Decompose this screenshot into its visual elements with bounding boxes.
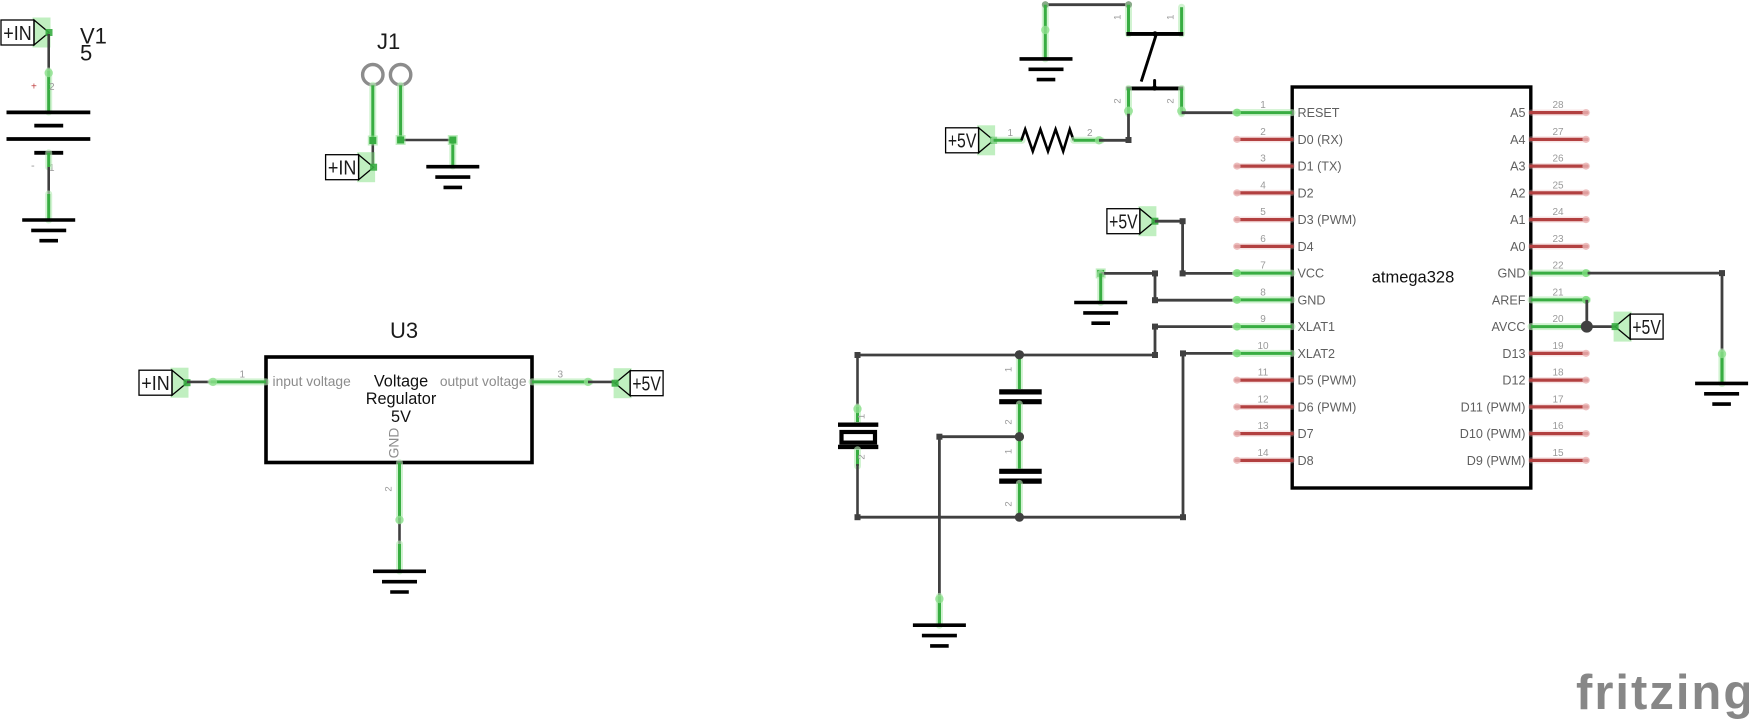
R1 pin2 wire (green) <box>1074 137 1102 144</box>
svg-text:GND: GND <box>1498 267 1526 281</box>
junction dot between C1 and C2 <box>1015 432 1024 441</box>
svg-text:J1: J1 <box>377 29 400 54</box>
ground symbol below crystal circuit <box>913 625 966 646</box>
svg-text:21: 21 <box>1552 287 1564 298</box>
wire gnd branch to GND pin <box>1155 299 1236 302</box>
green glow on ground wire <box>1041 26 1049 34</box>
switch contact dot bottom <box>1152 85 1157 90</box>
pin 6 stub of atmega328 (D4) <box>1233 243 1292 250</box>
svg-text:atmega328: atmega328 <box>1372 269 1455 287</box>
pin 18 stub of atmega328 (D12) <box>1531 377 1590 384</box>
junction dot mid node (redraw on top) <box>1015 432 1024 441</box>
bendpoint at R1/switch node <box>1126 137 1132 143</box>
pin 16 stub of atmega328 (D10 (PWM)) <box>1531 430 1590 437</box>
svg-text:XLAT1: XLAT1 <box>1298 320 1336 334</box>
svg-text:4: 4 <box>1260 180 1266 191</box>
svg-text:1: 1 <box>1260 100 1266 111</box>
green endpoint at V1 pin 2 <box>45 69 53 77</box>
svg-text:output voltage: output voltage <box>440 374 527 389</box>
svg-text:AREF: AREF <box>1492 293 1526 307</box>
wire down to ground (green) <box>1042 5 1049 59</box>
net label +5V at U3 output <box>612 368 664 398</box>
svg-text:20: 20 <box>1552 314 1564 325</box>
net label +IN at U3 input <box>139 368 191 398</box>
svg-text:A2: A2 <box>1510 186 1525 200</box>
wire +IN flag to V1 pin 2 <box>47 34 50 112</box>
pin 25 stub of atmega328 (A2) <box>1531 189 1590 196</box>
svg-text:U3: U3 <box>390 318 418 343</box>
svg-text:23: 23 <box>1552 234 1564 245</box>
wire switch pin2-left down to resistor node <box>1127 114 1130 140</box>
svg-text:AVCC: AVCC <box>1491 320 1525 334</box>
pin 5 stub of atmega328 (D3 (PWM)) <box>1233 216 1292 223</box>
svg-text:8: 8 <box>1260 287 1266 298</box>
svg-text:17: 17 <box>1552 394 1564 405</box>
svg-text:+IN: +IN <box>141 372 170 395</box>
svg-text:25: 25 <box>1552 180 1564 191</box>
green glow on GND wire <box>1718 350 1726 358</box>
net label +IN at battery V1 positive <box>1 18 53 48</box>
net label +5V at resistor R1 <box>946 125 998 155</box>
pin 1 stub of atmega328 (RESET) <box>1233 109 1292 117</box>
U3 pin 3 (green) <box>532 378 590 385</box>
bendpoint dot at top-left <box>1042 1 1049 8</box>
pin 7 stub of atmega328 (VCC) <box>1233 269 1292 277</box>
svg-text:A1: A1 <box>1510 213 1525 227</box>
pin 2 stub of atmega328 (D0 (RX)) <box>1233 136 1292 143</box>
wire J1 pin1 to +IN flag <box>371 139 374 165</box>
wire AVCC node to +5V flag <box>1587 325 1615 328</box>
bendpoint XLAT1 to rail <box>1152 352 1158 358</box>
bendpoint rail left end <box>855 352 861 358</box>
svg-text:11: 11 <box>1258 368 1269 379</box>
svg-text:1: 1 <box>1004 449 1015 454</box>
svg-text:D1 (TX): D1 (TX) <box>1298 160 1342 174</box>
switch S1 lever <box>1141 35 1156 81</box>
junction dot AREF/AVCC <box>1581 321 1593 333</box>
svg-text:+5V: +5V <box>1109 211 1138 234</box>
voltage regulator U3 body <box>266 357 532 463</box>
pin 13 stub of atmega328 (D7) <box>1233 430 1292 437</box>
net label +5V to VCC <box>1107 206 1159 236</box>
crystal Y1 pin 1 wire <box>856 355 859 409</box>
pin 9 stub of atmega328 (XLAT1) <box>1233 323 1292 331</box>
junction dot top rail (redraw on top) <box>1015 350 1024 359</box>
capacitor C2 bottom plate <box>999 479 1041 484</box>
bendpoint bottom rail left end <box>855 514 861 520</box>
svg-text:12: 12 <box>1257 394 1269 405</box>
switch S1 pin 2 (bottom-left, green) <box>1125 88 1132 113</box>
svg-text:D7: D7 <box>1298 427 1314 441</box>
switch S1 pin 2b (bottom-right, green) <box>1178 88 1185 113</box>
wire mid node to left <box>939 435 1019 438</box>
pin 2 of V1 (positive, green) <box>45 71 52 112</box>
ground symbol right of chip <box>1695 383 1748 404</box>
net label +IN at J1 pin 1 <box>326 152 378 182</box>
wire R1 to switch node <box>1099 139 1129 142</box>
svg-text:18: 18 <box>1552 368 1564 379</box>
svg-text:-: - <box>31 160 35 172</box>
svg-text:5: 5 <box>80 41 92 66</box>
pin 15 stub of atmega328 (D9 (PWM)) <box>1531 457 1590 464</box>
svg-text:2: 2 <box>1004 419 1015 424</box>
svg-text:9: 9 <box>1260 314 1266 325</box>
switch S1 bottom contact bar <box>1126 86 1183 90</box>
green glow switch pin2 left <box>1124 107 1133 116</box>
svg-text:1: 1 <box>240 370 246 381</box>
svg-text:XLAT2: XLAT2 <box>1298 347 1336 361</box>
capacitor C2 pin 2 (green) <box>1016 483 1023 517</box>
green glow crystal pin1 <box>853 405 861 413</box>
wire to VCC pin <box>1183 272 1236 275</box>
wire crystal bottom rail <box>858 516 1184 519</box>
svg-text:26: 26 <box>1552 154 1564 165</box>
wire J1 pin2 down (green) <box>397 85 404 140</box>
bendpoint XLAT2 to bottom rail <box>1180 514 1186 520</box>
bendpoint +5V wire bottom <box>1180 270 1186 276</box>
svg-text:+IN: +IN <box>328 157 357 180</box>
svg-text:13: 13 <box>1257 421 1269 432</box>
switch S1 pin 1b (top-right, green) <box>1178 7 1185 34</box>
svg-text:1: 1 <box>1004 367 1015 372</box>
pin 23 stub of atmega328 (A0) <box>1531 243 1590 250</box>
connector J1 pin 1 circle <box>363 65 383 85</box>
svg-text:2: 2 <box>1260 127 1266 138</box>
svg-text:D4: D4 <box>1298 240 1314 254</box>
switch contact dot top <box>1152 31 1157 36</box>
capacitor C1 bottom plate <box>999 399 1041 404</box>
svg-text:3: 3 <box>558 370 564 381</box>
svg-text:2: 2 <box>857 454 868 459</box>
wire U3 pin 2 to ground <box>398 518 401 546</box>
svg-text:Voltage: Voltage <box>374 372 428 390</box>
svg-text:14: 14 <box>1257 448 1269 459</box>
pin 19 stub of atmega328 (D13) <box>1531 350 1590 357</box>
wire +5V flag to R1 pin1 (green) <box>994 137 1022 144</box>
wire GND pin22 to right <box>1588 272 1722 275</box>
bendpoint gnd branch top <box>1152 270 1158 276</box>
svg-text:D5 (PWM): D5 (PWM) <box>1298 374 1357 388</box>
svg-text:2: 2 <box>1166 98 1177 103</box>
crystal Y1 pin 2 wire <box>856 464 859 517</box>
pin 21 stub of atmega328 (AREF) <box>1531 296 1590 304</box>
svg-text:GND: GND <box>387 428 402 459</box>
green endpoint R1 pin2 <box>1095 136 1103 144</box>
svg-text:5: 5 <box>1260 207 1266 218</box>
wire AREF down to AVCC node <box>1585 300 1588 327</box>
bendpoint GND wire corner <box>1719 270 1725 276</box>
svg-text:10: 10 <box>1257 341 1269 352</box>
pin 22 stub of atmega328 (GND) <box>1531 269 1590 277</box>
svg-text:D11 (PWM): D11 (PWM) <box>1461 400 1526 414</box>
wire +IN to U3 pin 1 <box>187 381 214 384</box>
green endpoint U3 pin2 wire <box>395 516 403 524</box>
svg-text:19: 19 <box>1552 341 1564 352</box>
pin 10 stub of atmega328 (XLAT2) <box>1233 349 1292 357</box>
crystal Y1 pin 2 (green) <box>854 450 861 466</box>
bendpoint gnd branch bottom <box>1152 297 1158 303</box>
green endpoint of GND branch wire <box>1096 268 1106 278</box>
svg-text:2: 2 <box>384 486 395 491</box>
svg-text:22: 22 <box>1552 261 1564 272</box>
ground symbol left of chip <box>1074 303 1127 324</box>
svg-text:24: 24 <box>1552 207 1564 218</box>
battery V1 plates <box>7 112 91 152</box>
svg-text:27: 27 <box>1552 127 1564 138</box>
resistor R1 zigzag <box>1021 129 1073 151</box>
svg-text:1: 1 <box>1008 128 1014 139</box>
bendpoint above J1 ground <box>448 135 458 145</box>
bendpoint at J1 pin2 wire corner <box>396 135 406 145</box>
pin 1 of V1 (negative, green) <box>45 153 52 167</box>
svg-text:D0 (RX): D0 (RX) <box>1298 133 1343 147</box>
connector J1 pin 2 circle <box>390 65 410 85</box>
svg-text:D2: D2 <box>1298 186 1314 200</box>
wire XLAT2 horizontal <box>1183 352 1236 355</box>
svg-text:2: 2 <box>1004 501 1015 506</box>
svg-text:fritzing: fritzing <box>1576 666 1749 720</box>
svg-text:A0: A0 <box>1510 240 1525 254</box>
svg-text:D10 (PWM): D10 (PWM) <box>1460 427 1526 441</box>
wire down to ground symbol (green) <box>1097 273 1104 302</box>
capacitor C1 pin 2 (green) <box>1016 404 1023 437</box>
capacitor C2 top plate <box>999 469 1041 474</box>
crystal Y1 body rectangle <box>842 432 876 443</box>
wire segment to ground (green) <box>45 194 52 220</box>
pin 26 stub of atmega328 (A3) <box>1531 163 1590 170</box>
pin 17 stub of atmega328 (D11 (PWM)) <box>1531 403 1590 410</box>
wire J1 pin2 horizontal to ground <box>399 139 453 142</box>
ground symbol under battery V1 <box>22 220 75 241</box>
svg-text:input voltage: input voltage <box>273 374 352 389</box>
wire V1 pin 1 to ground <box>47 167 50 196</box>
junction dot bottom rail / C2 <box>1015 513 1024 522</box>
svg-text:16: 16 <box>1552 421 1564 432</box>
switch S1 pin 1 (top-left, green) <box>1125 5 1132 34</box>
wire down to VCC row <box>1181 221 1184 273</box>
bendpoint +5V wire top <box>1180 218 1186 224</box>
green endpoint U3 pin1 <box>209 378 217 386</box>
wire XLAT1 vertical <box>1154 327 1157 355</box>
pin 11 stub of atmega328 (D5 (PWM)) <box>1233 377 1292 384</box>
svg-text:2: 2 <box>49 82 55 93</box>
svg-text:VCC: VCC <box>1298 267 1325 281</box>
pin 28 stub of atmega328 (A5) <box>1531 109 1590 116</box>
pin 24 stub of atmega328 (A1) <box>1531 216 1590 223</box>
wire gnd branch vertical <box>1154 273 1157 300</box>
green endpoint U3 pin3 <box>584 378 592 386</box>
crystal Y1 top plate <box>838 423 878 427</box>
pin 20 stub of atmega328 (AVCC) <box>1531 323 1590 331</box>
wire to ground (green) <box>936 597 943 626</box>
wire switch to RESET pin <box>1182 111 1236 114</box>
svg-text:15: 15 <box>1552 448 1564 459</box>
svg-text:2: 2 <box>1112 98 1123 103</box>
svg-text:A4: A4 <box>1510 133 1525 147</box>
bendpoint mid node left <box>936 434 942 440</box>
svg-text:RESET: RESET <box>1298 106 1340 120</box>
svg-text:2: 2 <box>1087 128 1093 139</box>
green glow above ground <box>935 595 943 603</box>
wire J1 pin1 down (green) <box>369 85 376 141</box>
bendpoint on J1 pin1 wire <box>368 136 378 146</box>
svg-text:D13: D13 <box>1502 347 1525 361</box>
svg-text:A5: A5 <box>1510 106 1525 120</box>
capacitor C1 top plate <box>999 389 1041 394</box>
svg-text:1: 1 <box>1166 15 1177 20</box>
svg-text:+: + <box>31 82 37 93</box>
svg-text:6: 6 <box>1260 234 1266 245</box>
ground symbol for J1 <box>426 167 479 188</box>
svg-text:+5V: +5V <box>1632 316 1661 339</box>
wire crystal top rail <box>858 354 1156 357</box>
junction dot at switch pin 1 <box>1125 1 1132 8</box>
bendpoint XLAT2 <box>1180 350 1186 356</box>
switch S1 top contact bar <box>1126 32 1183 36</box>
wire switch to ground (top horizontal) <box>1045 3 1128 6</box>
svg-text:D6 (PWM): D6 (PWM) <box>1298 400 1357 414</box>
pin 12 stub of atmega328 (D6 (PWM)) <box>1233 403 1292 410</box>
pin 3 stub of atmega328 (D1 (TX)) <box>1233 163 1292 170</box>
pin 4 stub of atmega328 (D2) <box>1233 189 1292 196</box>
svg-text:D8: D8 <box>1298 454 1314 468</box>
wire GND down <box>1721 273 1724 354</box>
capacitor C2 pin 1 (green) <box>1016 437 1023 469</box>
svg-text:5V: 5V <box>391 408 411 426</box>
svg-text:D12: D12 <box>1502 374 1525 388</box>
svg-text:Regulator: Regulator <box>366 390 437 408</box>
pin 8 stub of atmega328 (GND) <box>1233 296 1292 304</box>
svg-text:D9 (PWM): D9 (PWM) <box>1467 454 1526 468</box>
green glow switch pin2 right <box>1177 107 1186 116</box>
svg-text:3: 3 <box>1260 154 1266 165</box>
svg-text:28: 28 <box>1552 100 1564 111</box>
wire +5V flag right <box>1155 220 1183 223</box>
svg-text:+IN: +IN <box>3 22 32 45</box>
svg-text:7: 7 <box>1260 261 1266 272</box>
net label +5V at AVCC <box>1612 312 1664 342</box>
bendpoint XLAT1 <box>1152 324 1158 330</box>
svg-text:+5V: +5V <box>948 130 977 153</box>
switch S1 pole stub <box>1153 81 1156 89</box>
IC atmega328 body <box>1292 87 1531 488</box>
wire mid node down to ground <box>938 437 941 599</box>
svg-text:GND: GND <box>1298 293 1326 307</box>
crystal Y1 pin 1 (green) <box>854 407 861 422</box>
pin 27 stub of atmega328 (A4) <box>1531 136 1590 143</box>
crystal Y1 bottom plate <box>838 445 878 449</box>
U3 pin 1 (green) <box>211 378 266 385</box>
svg-text:1: 1 <box>857 414 868 419</box>
svg-text:1: 1 <box>1112 15 1123 20</box>
wire GND to ground (green) <box>1718 352 1725 383</box>
U3 pin 2 (green) <box>396 463 403 520</box>
svg-text:D3 (PWM): D3 (PWM) <box>1298 213 1357 227</box>
wire gnd branch horizontal <box>1101 272 1155 275</box>
wire to ground green segment <box>396 544 403 571</box>
capacitor C1 pin 1 (green) <box>1016 355 1023 389</box>
wire down to ground (green) <box>449 140 456 166</box>
ground symbol under U3 <box>373 571 426 592</box>
ground symbol above switch <box>1020 59 1073 80</box>
junction dot top rail / C1 <box>1015 350 1024 359</box>
wire XLAT2 vertical <box>1182 353 1185 517</box>
svg-text:A3: A3 <box>1510 160 1525 174</box>
pin 14 stub of atmega328 (D8) <box>1233 457 1292 464</box>
wire U3 pin 3 to +5V flag <box>588 381 615 384</box>
svg-text:+5V: +5V <box>632 373 661 396</box>
wire XLAT1 horizontal <box>1155 325 1236 328</box>
